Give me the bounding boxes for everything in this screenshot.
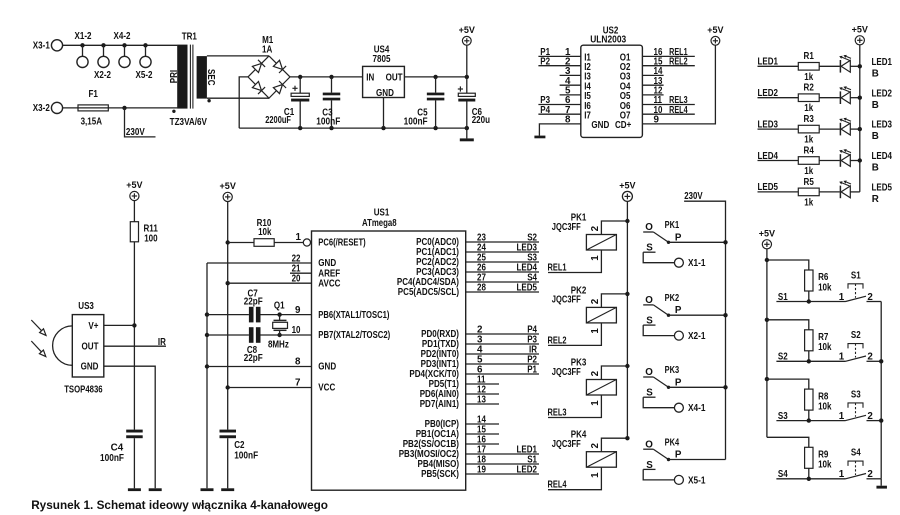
svg-text:P4: P4 <box>540 105 550 116</box>
wire: US3 OUT net IR <box>104 337 166 348</box>
wire: mains L from X3-1 to TR1 primary <box>63 44 178 46</box>
wire: PK1 coil pin 1 net REL1 <box>548 250 602 273</box>
wire: US3 GND to ground <box>104 366 155 488</box>
svg-text:ULN2003: ULN2003 <box>590 34 626 45</box>
wire: US1 pin 18 net S1 <box>466 455 539 466</box>
svg-text:PRI: PRI <box>169 70 180 84</box>
wire: net S3 row <box>776 411 845 423</box>
svg-text:PD7(AIN1): PD7(AIN1) <box>420 399 459 410</box>
svg-text:10k: 10k <box>258 227 272 238</box>
svg-text:IN: IN <box>366 73 374 84</box>
ground: power supply ground symbol <box>460 128 474 141</box>
svg-text:9: 9 <box>295 305 301 316</box>
bridge rectifier M1 1A <box>248 35 290 98</box>
node X1-2 <box>75 31 92 68</box>
capacitor C8 22pF <box>244 327 263 364</box>
svg-text:X5-1: X5-1 <box>688 475 706 486</box>
svg-text:PK1: PK1 <box>665 220 680 231</box>
svg-text:S3: S3 <box>851 389 861 400</box>
svg-text:8: 8 <box>295 356 301 367</box>
svg-text:+5V: +5V <box>220 180 237 191</box>
wire: US1 pin 19 net LED2 <box>466 465 539 476</box>
svg-text:VCC: VCC <box>318 383 335 394</box>
resistor R1 1k <box>758 51 840 83</box>
svg-text:R4: R4 <box>804 145 815 156</box>
svg-text:1: 1 <box>590 255 601 261</box>
svg-text:100nF: 100nF <box>234 451 258 462</box>
node X5-2 <box>136 43 153 81</box>
resistor R2 1k <box>758 83 840 115</box>
connector X1-1 <box>674 258 706 269</box>
wire: US1 pin 23 net S2 <box>466 233 539 244</box>
wire: US1 +5V rail <box>226 202 230 430</box>
svg-text:1: 1 <box>839 469 845 480</box>
svg-text:P1: P1 <box>527 365 537 376</box>
wire: US1 pin 28 net LED5 <box>466 283 539 294</box>
svg-text:B: B <box>872 100 879 111</box>
node LED1 B on +5V rail <box>858 57 893 80</box>
svg-text:10k: 10k <box>818 402 832 413</box>
wire: US1 pin 25 net S3 <box>466 253 539 264</box>
wire: PK1 coil pin 2 to +5V <box>601 219 629 235</box>
svg-text:100nF: 100nF <box>100 453 124 464</box>
voltage regulator US4 7805 <box>363 45 405 99</box>
connector X3-1 <box>33 40 63 52</box>
resistor R3 1k <box>758 114 840 146</box>
wire: US1 pin 11 stub <box>466 375 499 386</box>
resistor R9 10k <box>767 437 832 479</box>
wire: button +5V rail <box>765 249 769 437</box>
svg-text:22pF: 22pF <box>244 353 263 364</box>
wire: US2 pin 10 net REL4 <box>642 105 694 116</box>
svg-text:US1: US1 <box>374 208 390 219</box>
svg-text:AVCC: AVCC <box>318 278 340 289</box>
svg-text:S1: S1 <box>851 270 861 281</box>
svg-text:1k: 1k <box>804 103 813 114</box>
svg-text:220u: 220u <box>472 115 490 126</box>
wire: US1 pin 16 stub <box>466 435 499 446</box>
wire: US2 pin 6 net P3 <box>538 95 580 106</box>
capacitor C4 100nF <box>100 430 143 489</box>
wire: US1 pin 14 stub <box>466 415 499 426</box>
wire: PK4 coil pin 1 net REL4 <box>548 467 602 490</box>
capacitor C7 22pF <box>244 288 263 322</box>
svg-text:X3-1: X3-1 <box>33 41 50 52</box>
pushbutton S1 <box>839 270 881 303</box>
wire: mains N from X3-2 through fuse to TR1 primary <box>63 107 178 109</box>
relay PK2 JQC3FF coil <box>552 285 617 333</box>
svg-text:X1-2: X1-2 <box>75 31 92 42</box>
svg-text:100nF: 100nF <box>316 116 340 127</box>
svg-text:GND: GND <box>81 361 99 372</box>
wire: US1 GND rail <box>205 263 209 488</box>
ground: US1 GND rail symbol <box>201 488 214 491</box>
svg-text:7: 7 <box>295 377 301 388</box>
svg-text:LED5: LED5 <box>517 283 538 294</box>
svg-text:LED3: LED3 <box>872 120 893 131</box>
wire: US1 pin 5 net P2 <box>466 355 539 366</box>
wire: US2 pin 5 <box>560 86 581 97</box>
svg-text:100nF: 100nF <box>404 116 428 127</box>
resistor R7 10k <box>767 320 832 362</box>
svg-text:1k: 1k <box>804 135 813 146</box>
wire: US2 pin 7 net P4 <box>538 105 580 116</box>
IR signal arrows <box>31 320 46 357</box>
svg-text:7805: 7805 <box>373 54 391 65</box>
svg-text:+5V: +5V <box>852 23 869 34</box>
svg-text:ATmega8: ATmega8 <box>362 218 397 229</box>
svg-text:PK3: PK3 <box>665 365 680 376</box>
wire: US1 pin 8 GND <box>207 356 312 367</box>
svg-text:100: 100 <box>144 234 158 245</box>
connector X3-2 <box>33 102 63 114</box>
svg-text:OUT: OUT <box>386 73 403 84</box>
resistor R8 10k <box>767 379 832 421</box>
wire: US2 pin 12 <box>642 86 663 97</box>
svg-text:S4: S4 <box>851 448 861 459</box>
svg-text:X4-1: X4-1 <box>688 403 706 414</box>
svg-text:PB6(XTAL1/TOSC1): PB6(XTAL1/TOSC1) <box>318 310 389 321</box>
wire: US1 pin 24 net LED3 <box>466 243 539 254</box>
svg-text:+5V: +5V <box>759 227 776 238</box>
svg-text:8MHz: 8MHz <box>268 340 289 351</box>
svg-text:R1: R1 <box>804 51 815 62</box>
wire: US2 pin 15 net REL2 <box>642 56 694 67</box>
svg-text:+5V: +5V <box>126 179 143 190</box>
wire: PK3 coil pin 2 to +5V <box>601 364 629 380</box>
svg-text:S2: S2 <box>851 330 861 341</box>
LED3 diode B <box>839 118 860 136</box>
svg-text:1: 1 <box>590 328 601 334</box>
svg-text:JQC3FF: JQC3FF <box>552 439 581 450</box>
svg-text:1: 1 <box>590 472 601 478</box>
svg-text:1k: 1k <box>804 72 813 83</box>
wire: net S4 row <box>776 469 845 481</box>
svg-text:R3: R3 <box>804 114 815 125</box>
svg-text:Rysunek 1. Schemat ideowy włąc: Rysunek 1. Schemat ideowy włącznika 4-ka… <box>31 498 328 512</box>
wire: US1 pin 22 GND <box>207 253 312 264</box>
svg-text:PC6(/RESET): PC6(/RESET) <box>318 238 365 249</box>
svg-text:REL4: REL4 <box>548 480 567 491</box>
svg-text:2: 2 <box>590 225 601 231</box>
wire: US2 pin 1 net P1 <box>538 47 580 58</box>
svg-text:22pF: 22pF <box>244 296 263 307</box>
wire: 7805 GND pin to ground rail <box>383 98 385 129</box>
wire: US1 pin 27 net S4 <box>466 273 539 284</box>
ground: US3 ground symbol <box>149 488 162 491</box>
svg-text:1: 1 <box>839 411 845 422</box>
ground: US2 GND symbol <box>534 136 545 139</box>
svg-text:PC5(ADC5/SCL): PC5(ADC5/SCL) <box>398 287 459 298</box>
svg-text:X1-1: X1-1 <box>688 258 706 269</box>
svg-text:PK2: PK2 <box>665 293 680 304</box>
svg-text:REL1: REL1 <box>548 262 567 273</box>
wire: US2 pin 11 net REL3 <box>642 95 694 106</box>
driver IC US2 ULN2003 <box>581 26 643 138</box>
wire: PK2 coil pin 1 net REL2 <box>548 323 602 346</box>
svg-text:R2: R2 <box>804 83 815 94</box>
wire: US2 pin 16 net REL1 <box>642 47 694 58</box>
svg-text:P2: P2 <box>540 56 550 67</box>
svg-text:10: 10 <box>292 325 301 336</box>
svg-text:V+: V+ <box>88 321 98 332</box>
svg-text:GND: GND <box>318 362 336 373</box>
svg-text:REL2: REL2 <box>548 335 567 346</box>
svg-text:3,15A: 3,15A <box>81 117 102 128</box>
connector X4-1 <box>674 403 706 414</box>
power +5V LED rail <box>852 23 869 45</box>
node 230V net stub <box>122 106 155 138</box>
wire: US1 pin 6 net P1 <box>466 365 539 376</box>
wire: US1 pin 10 PB7 crystal net <box>207 325 312 337</box>
wire: US1 pin 3 net P3 <box>466 335 539 346</box>
svg-text:+5V: +5V <box>707 24 724 35</box>
wire: US2 pin 14 <box>642 66 663 77</box>
relay PK3 JQC3FF coil <box>552 357 617 405</box>
wire: US2 pin 3 <box>560 66 581 77</box>
node LED5 R on +5V rail <box>872 183 893 206</box>
svg-text:230V: 230V <box>126 127 145 138</box>
svg-text:I7: I7 <box>584 111 591 122</box>
svg-text:2: 2 <box>590 370 601 376</box>
LED5 diode R <box>839 181 860 199</box>
node X4-2 <box>114 31 131 68</box>
wire: PK2 coil pin 2 to +5V <box>601 292 629 308</box>
connector X2-1 <box>674 331 706 342</box>
microcontroller US1 ATmega8 <box>312 208 466 491</box>
power +5V at US2 <box>707 24 724 45</box>
wire: net S2 row <box>776 352 845 364</box>
wire: US2 pin 2 net P2 <box>538 56 580 67</box>
svg-text:28: 28 <box>477 283 486 294</box>
power +5V at US1 <box>220 180 237 202</box>
wire: ground rail of power supply <box>239 126 469 130</box>
pushbutton S4 <box>839 448 881 481</box>
wire: US1 pin 7 VCC <box>228 377 312 388</box>
wire: US1 pin 26 net LED4 <box>466 263 539 274</box>
svg-text:US3: US3 <box>78 301 94 312</box>
wire: US1 pin 9 PB6 crystal net <box>207 305 312 317</box>
wire: bridge negative to ground rail <box>239 77 248 128</box>
wire: US1 pin 13 stub <box>466 395 499 406</box>
svg-text:OUT: OUT <box>82 341 99 352</box>
svg-text:+5V: +5V <box>619 179 636 190</box>
resistor R11 100 <box>130 201 158 245</box>
svg-text:1: 1 <box>839 352 845 363</box>
svg-text:REL4: REL4 <box>669 105 688 116</box>
ground: button rail ground symbol <box>876 479 887 489</box>
LED2 diode B <box>839 86 860 104</box>
relay contact PK2 <box>643 293 728 336</box>
svg-text:P: P <box>675 305 682 316</box>
node X2-2 <box>94 43 111 81</box>
svg-text:SEC: SEC <box>205 69 216 86</box>
svg-text:PB7(XTAL2/TOSC2): PB7(XTAL2/TOSC2) <box>318 330 390 341</box>
svg-text:1k: 1k <box>804 166 813 177</box>
svg-text:JQC3FF: JQC3FF <box>552 295 581 306</box>
resistor R6 10k <box>767 260 832 302</box>
svg-text:1: 1 <box>839 292 845 303</box>
svg-text:1A: 1A <box>262 44 272 55</box>
wire: net S1 row <box>776 292 845 304</box>
svg-text:B: B <box>872 68 879 79</box>
svg-text:X2-1: X2-1 <box>688 331 706 342</box>
svg-text:9: 9 <box>654 115 660 126</box>
svg-text:GND: GND <box>376 88 394 99</box>
wire: R11 to US3 V+ and C4 <box>132 242 136 430</box>
wire: bridge positive to 7805 IN <box>290 75 363 79</box>
svg-text:B: B <box>872 131 879 142</box>
svg-text:R: R <box>872 194 879 205</box>
wire: US1 pin 4 net IR <box>466 345 539 356</box>
svg-text:TR1: TR1 <box>182 31 198 42</box>
capacitor C5 100nF <box>404 77 445 128</box>
relay PK4 JQC3FF coil <box>552 430 617 478</box>
resistor R5 1k <box>758 177 840 209</box>
svg-text:LED4: LED4 <box>872 151 893 162</box>
capacitor C3 100nF <box>316 77 340 128</box>
svg-text:P: P <box>675 450 682 461</box>
svg-text:LED1: LED1 <box>872 57 893 68</box>
svg-text:20: 20 <box>292 274 301 285</box>
svg-text:C4: C4 <box>111 443 124 454</box>
svg-text:1: 1 <box>590 400 601 406</box>
wire: US1 pin 20 AVCC <box>228 274 312 285</box>
relay PK1 JQC3FF coil <box>552 212 617 260</box>
node LED3 B on +5V rail <box>858 120 893 143</box>
svg-text:TZ3VA/6V: TZ3VA/6V <box>170 117 208 128</box>
node 230V rail label <box>684 191 725 459</box>
wire: PK3 coil pin 1 net REL3 <box>548 395 602 418</box>
fuse F1 3,15A <box>78 89 108 128</box>
svg-text:JQC3FF: JQC3FF <box>552 222 581 233</box>
svg-text:REL3: REL3 <box>548 407 567 418</box>
svg-text:2: 2 <box>590 298 601 304</box>
crystal Q1 8MHz <box>268 301 289 351</box>
connector X5-1 <box>674 475 706 486</box>
power +5V button rail <box>759 227 776 249</box>
svg-text:R5: R5 <box>804 177 815 188</box>
svg-text:X2-2: X2-2 <box>94 70 111 81</box>
svg-text:PK4: PK4 <box>665 437 680 448</box>
IR receiver US3 TSOP4836 <box>53 301 104 395</box>
wire: TR1 secondary bottom to bridge <box>207 97 269 99</box>
svg-text:B: B <box>872 163 879 174</box>
node LED4 B on +5V rail <box>858 151 893 174</box>
svg-text:GND: GND <box>591 120 609 131</box>
wire: US1 pin 12 stub <box>466 385 499 396</box>
wire: LED +5V rail <box>859 45 861 192</box>
svg-text:LED2: LED2 <box>872 88 893 99</box>
pushbutton S2 <box>839 330 881 363</box>
svg-text:JQC3FF: JQC3FF <box>552 367 581 378</box>
capacitor C1 2200uF <box>265 77 309 128</box>
wire: US2 pin 4 <box>560 76 581 87</box>
svg-text:10k: 10k <box>818 282 832 293</box>
svg-text:X3-2: X3-2 <box>33 103 50 114</box>
pushbutton S3 <box>839 389 881 422</box>
svg-text:TSOP4836: TSOP4836 <box>64 385 103 396</box>
svg-text:X5-2: X5-2 <box>136 70 153 81</box>
power +5V supply output <box>459 24 476 77</box>
wire: US2 pin 13 <box>642 76 663 87</box>
svg-text:Q1: Q1 <box>274 301 285 312</box>
LED1 diode B <box>839 55 860 73</box>
svg-text:2200uF: 2200uF <box>265 115 291 126</box>
svg-text:8: 8 <box>565 115 571 126</box>
wire: US3 V+ pin <box>104 324 135 326</box>
svg-text:13: 13 <box>477 395 486 406</box>
capacitor C2 100nF <box>220 430 259 489</box>
wire: TR1 secondary top to bridge <box>207 55 269 57</box>
svg-text:P: P <box>675 232 682 243</box>
wire: PK4 coil pin 2 to +5V <box>601 436 629 452</box>
svg-text:1k: 1k <box>804 197 813 208</box>
svg-text:X4-2: X4-2 <box>114 31 131 42</box>
wire: US2 pin 8 GND <box>539 115 580 136</box>
svg-text:CD+: CD+ <box>615 120 632 131</box>
relay contact PK3 <box>643 365 728 408</box>
ground: C4 ground symbol <box>128 488 141 491</box>
svg-text:IR: IR <box>158 337 166 348</box>
svg-text:P: P <box>675 377 682 388</box>
wire: US1 pin 21 AREF stub <box>290 264 312 275</box>
svg-text:+5V: +5V <box>459 24 476 35</box>
ground: C2 ground symbol <box>221 488 234 491</box>
svg-text:10k: 10k <box>818 342 832 353</box>
wire: relay +5V rail <box>626 202 628 439</box>
power +5V at US3 <box>126 179 143 201</box>
resistor R10 10k <box>228 218 304 246</box>
svg-text:19: 19 <box>477 465 486 476</box>
resistor R4 1k <box>758 145 840 177</box>
wire: button common rail <box>879 302 883 479</box>
wire: US1 pin 15 stub <box>466 425 499 436</box>
node LED2 B on +5V rail <box>858 88 893 111</box>
transformer TR1 TZ3VA/6V <box>169 31 216 128</box>
relay contact PK1 <box>643 220 728 263</box>
wire: US1 pin 17 net LED1 <box>466 445 539 456</box>
power +5V relay rail <box>619 179 636 201</box>
caption Rysunek 1 <box>31 498 328 512</box>
svg-text:2: 2 <box>590 443 601 449</box>
wire: US1 pin 1 /RESET bubble <box>296 232 311 246</box>
LED4 diode B <box>839 149 860 167</box>
wire: 7805 OUT +5V rail <box>404 75 469 79</box>
svg-text:PB5(SCK): PB5(SCK) <box>421 469 459 480</box>
svg-text:C2: C2 <box>234 440 245 451</box>
svg-text:LED2: LED2 <box>517 465 538 476</box>
svg-text:LED5: LED5 <box>872 183 893 194</box>
wire: US2 pin 9 CD+ to +5V <box>642 45 715 125</box>
svg-text:REL2: REL2 <box>669 56 688 67</box>
relay contact PK4 <box>643 437 725 480</box>
svg-text:F1: F1 <box>89 89 99 100</box>
capacitor C6 220u <box>458 77 490 128</box>
svg-text:1: 1 <box>296 232 302 243</box>
svg-text:10k: 10k <box>818 460 832 471</box>
wire: US1 pin 2 net P4 <box>466 325 539 336</box>
